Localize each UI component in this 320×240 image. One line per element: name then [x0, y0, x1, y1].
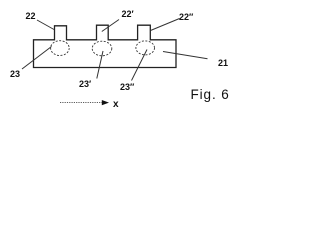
dashed ellipse 23''	[136, 41, 155, 55]
label x	[113, 100, 119, 109]
label 21	[218, 59, 228, 68]
leader line 22''	[151, 19, 180, 31]
label 22''	[179, 13, 193, 22]
leader line 22	[37, 20, 54, 30]
dashed ellipse 23	[51, 41, 70, 56]
caption Fig. 6	[191, 88, 230, 101]
label 23	[10, 70, 20, 79]
label 22'	[122, 10, 134, 19]
leader line 22'	[102, 20, 119, 32]
label 22	[26, 12, 36, 21]
dashed ellipse 23'	[92, 41, 112, 56]
leader line 23	[22, 47, 52, 70]
leader line 21	[163, 52, 208, 59]
leader line 23'	[97, 51, 103, 79]
x-axis arrow shaft	[60, 102, 102, 104]
x-axis arrow head	[102, 100, 109, 105]
leader line 23''	[132, 50, 148, 81]
label 23'	[79, 80, 91, 89]
label 23''	[120, 83, 134, 92]
bar 21 with three tabs outline	[34, 25, 177, 67]
